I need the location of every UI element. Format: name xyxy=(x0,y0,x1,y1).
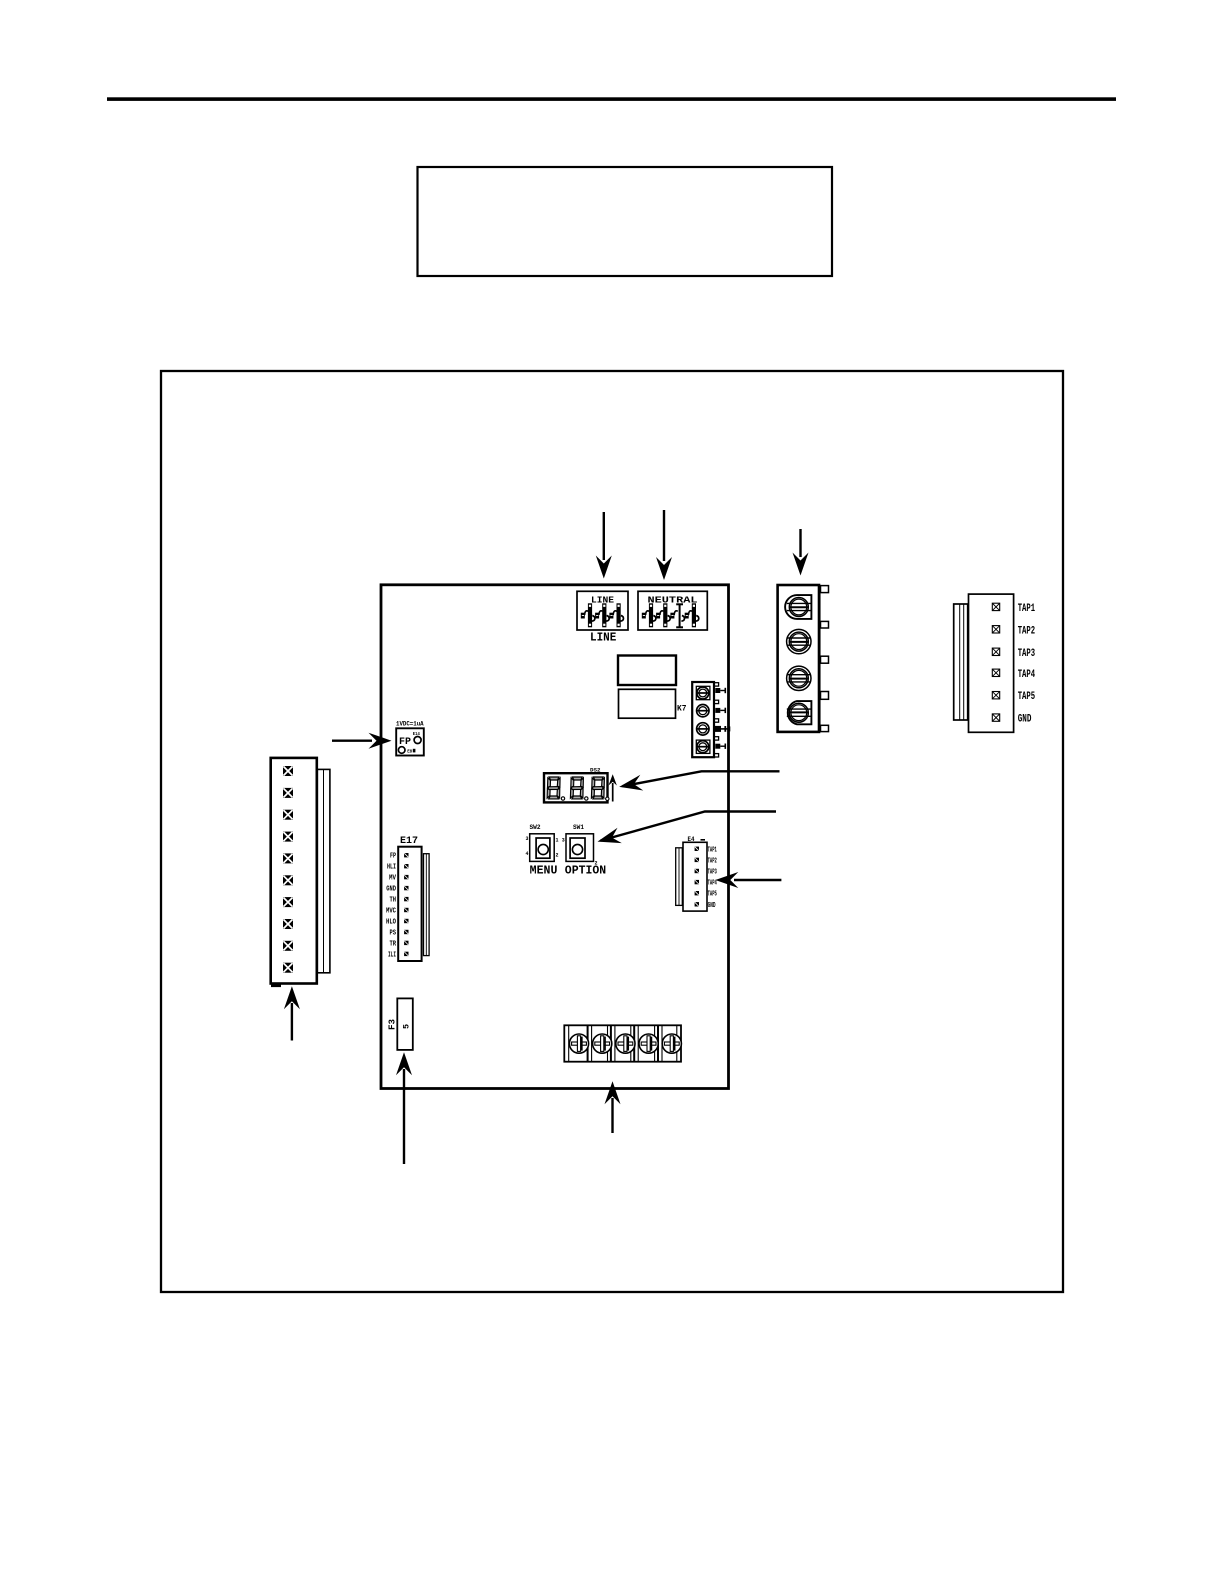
callout arrow to SW1 xyxy=(595,812,776,850)
LINE fuse block xyxy=(577,591,628,630)
svg-text:MVC: MVC xyxy=(386,908,396,916)
NEUTRAL fuse block xyxy=(638,591,707,630)
E17 pin labels xyxy=(386,853,397,960)
fuse F (NEUTRAL 3) xyxy=(670,604,684,627)
svg-text:TAP4: TAP4 xyxy=(708,880,717,888)
arrow to output connector xyxy=(793,529,809,576)
relay K7 contact 2 xyxy=(697,705,709,717)
output screw 3 xyxy=(787,666,811,690)
svg-text:TR: TR xyxy=(390,940,397,948)
switch SW1 xyxy=(562,834,598,867)
svg-text:TAP5: TAP5 xyxy=(708,891,717,899)
arrow to FPO xyxy=(332,733,392,749)
svg-text:SW2: SW2 xyxy=(530,824,541,831)
tap connector pads xyxy=(992,603,999,721)
svg-text:TAP3: TAP3 xyxy=(708,869,717,877)
transformer box upper xyxy=(618,656,676,686)
svg-text:3: 3 xyxy=(526,836,529,842)
arrow to left connector xyxy=(284,986,300,1040)
small up arrow beside DS2 xyxy=(609,774,617,801)
terminal screw 4 xyxy=(639,1034,658,1053)
terminal screw 1 xyxy=(569,1034,588,1053)
svg-text:K7: K7 xyxy=(677,704,687,714)
output screw 4 cavity xyxy=(788,701,812,724)
switch SW2 xyxy=(526,834,559,862)
svg-text:TAP1: TAP1 xyxy=(1018,603,1036,615)
svg-text:TAP5: TAP5 xyxy=(1018,691,1036,703)
svg-text:E17: E17 xyxy=(400,835,418,847)
svg-text:5: 5 xyxy=(402,1024,412,1029)
display DS2 xyxy=(544,773,609,802)
svg-text:SW1: SW1 xyxy=(573,824,584,831)
relay K7 pin 3 xyxy=(715,726,730,732)
tap connector labels xyxy=(1018,603,1036,726)
fuse F3 body xyxy=(397,998,413,1050)
connector E4 body xyxy=(683,842,707,911)
svg-text:GND: GND xyxy=(708,902,716,910)
svg-text:GND: GND xyxy=(386,886,396,894)
output screw 2 xyxy=(787,629,811,653)
PCB board outline xyxy=(381,585,729,1089)
relay K7 pin 2 xyxy=(715,708,725,713)
transformer box lower xyxy=(619,689,676,718)
arrow to NEUTRAL input xyxy=(656,510,672,580)
svg-text:4: 4 xyxy=(526,851,529,857)
tap connector body xyxy=(969,594,1014,732)
left ribbon connector body xyxy=(271,758,317,987)
svg-text:GND: GND xyxy=(1018,714,1032,726)
arrow to terminal block xyxy=(605,1081,621,1133)
connector E17 body xyxy=(398,847,421,961)
svg-text:F3: F3 xyxy=(387,1019,398,1030)
terminal screw 5 xyxy=(662,1034,681,1053)
callout arrow to DS2 xyxy=(618,771,780,794)
empty note box xyxy=(418,167,833,276)
svg-text:TAP2: TAP2 xyxy=(708,857,717,865)
svg-text:MENU: MENU xyxy=(530,864,558,877)
svg-text:TAP2: TAP2 xyxy=(1018,625,1035,637)
E17 shroud xyxy=(424,854,430,956)
header rule xyxy=(107,97,1116,101)
relay K7 contact 1 xyxy=(696,686,710,699)
arrow to LINE input xyxy=(596,512,612,579)
output screw 1 cavity xyxy=(785,595,811,619)
fuse F (LINE 1) xyxy=(581,603,595,627)
svg-text:1: 1 xyxy=(556,838,559,844)
relay K7 pin 4 xyxy=(715,744,725,749)
fuse F (LINE 2) xyxy=(595,603,609,627)
svg-text:E8: E8 xyxy=(407,751,412,755)
svg-text:TAP3: TAP3 xyxy=(1018,648,1036,660)
fuse F (NEUTRAL 2) xyxy=(656,603,670,627)
tap connector shroud xyxy=(954,604,968,720)
E4 shroud xyxy=(676,848,683,906)
svg-text:TH: TH xyxy=(390,897,397,905)
arrow to F3 xyxy=(396,1052,412,1164)
relay K7 contact 4 xyxy=(696,740,710,753)
svg-text:HLI: HLI xyxy=(387,864,396,872)
svg-text:1VDC=1uA: 1VDC=1uA xyxy=(396,720,424,727)
svg-text:3: 3 xyxy=(562,838,565,844)
relay K7 pin 1 xyxy=(715,688,725,693)
fuse F (LINE 3) xyxy=(609,603,623,627)
connector E4 pins xyxy=(695,847,699,907)
output screw 4 xyxy=(787,703,811,722)
test point FPO box xyxy=(396,728,424,755)
figure outer border xyxy=(161,371,1063,1292)
terminal screw 3 xyxy=(616,1034,635,1053)
svg-text:FP: FP xyxy=(390,853,396,861)
E4 pin labels xyxy=(708,846,717,910)
left connector shroud xyxy=(317,769,330,972)
output screw 1 xyxy=(787,598,811,617)
fuse F (NEUTRAL 4) xyxy=(685,603,699,627)
svg-text:MV: MV xyxy=(389,875,397,883)
svg-text:PS: PS xyxy=(390,930,397,938)
svg-text:OPTION: OPTION xyxy=(565,864,606,877)
svg-text:TAP1: TAP1 xyxy=(708,846,717,854)
svg-text:TAP4: TAP4 xyxy=(1018,669,1036,681)
callout arrow to E4 xyxy=(715,872,781,888)
terminal screw 2 xyxy=(593,1034,612,1053)
relay K7 body xyxy=(692,682,718,757)
fuse F (NEUTRAL 1) xyxy=(642,603,656,627)
svg-text:2: 2 xyxy=(556,853,559,859)
terminal block body xyxy=(564,1025,681,1061)
left ribbon connector pads xyxy=(283,766,293,973)
connector E17 pins xyxy=(404,853,408,956)
relay K7 contact 3 xyxy=(697,723,709,735)
svg-text:HLO: HLO xyxy=(386,919,396,927)
svg-text:LINE: LINE xyxy=(590,632,616,645)
svg-text:ILI: ILI xyxy=(388,951,396,959)
output connector body xyxy=(778,585,829,732)
svg-text:NEUTRAL: NEUTRAL xyxy=(648,596,698,606)
